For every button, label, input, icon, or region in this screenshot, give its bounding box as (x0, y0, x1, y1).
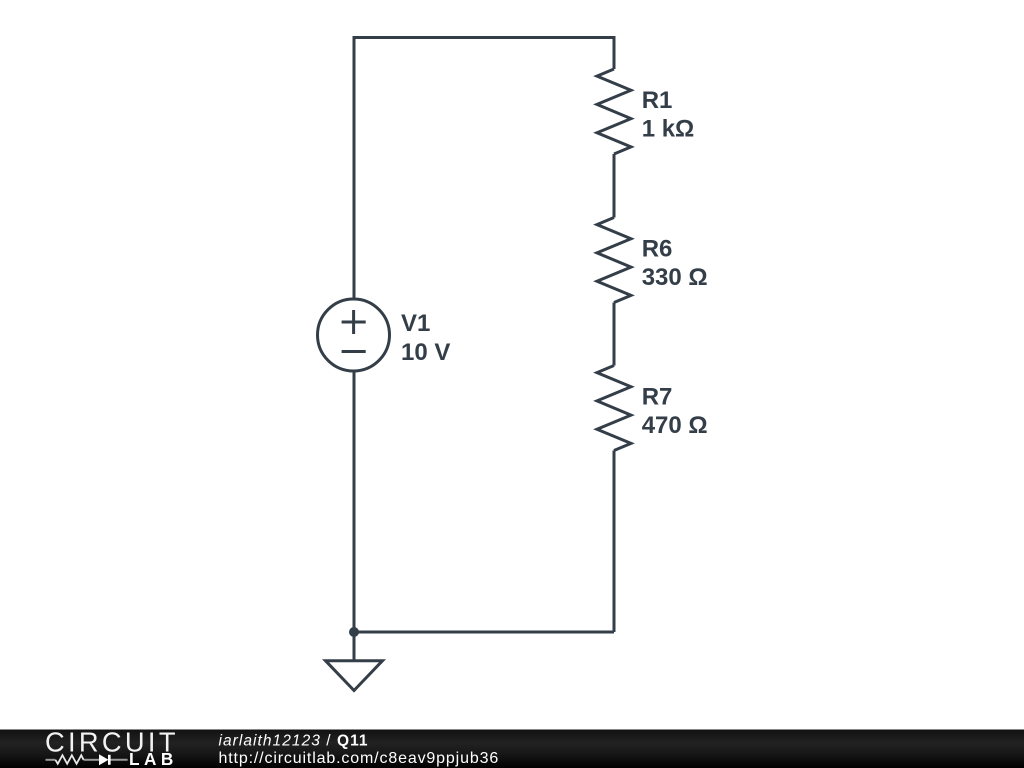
svg-text:V1: V1 (401, 310, 430, 337)
svg-text:R1: R1 (642, 87, 673, 114)
svg-text:iarlaith12123 / Q11: iarlaith12123 / Q11 (219, 733, 369, 750)
svg-text:10 V: 10 V (401, 339, 450, 366)
svg-text:LAB: LAB (129, 749, 178, 768)
svg-text:1 kΩ: 1 kΩ (642, 116, 695, 143)
svg-text:R7: R7 (642, 384, 673, 411)
svg-text:470 Ω: 470 Ω (642, 412, 708, 439)
svg-text:http://circuitlab.com/c8eav9pp: http://circuitlab.com/c8eav9ppjub36 (219, 750, 500, 767)
svg-text:330 Ω: 330 Ω (642, 264, 708, 291)
svg-text:R6: R6 (642, 236, 673, 263)
